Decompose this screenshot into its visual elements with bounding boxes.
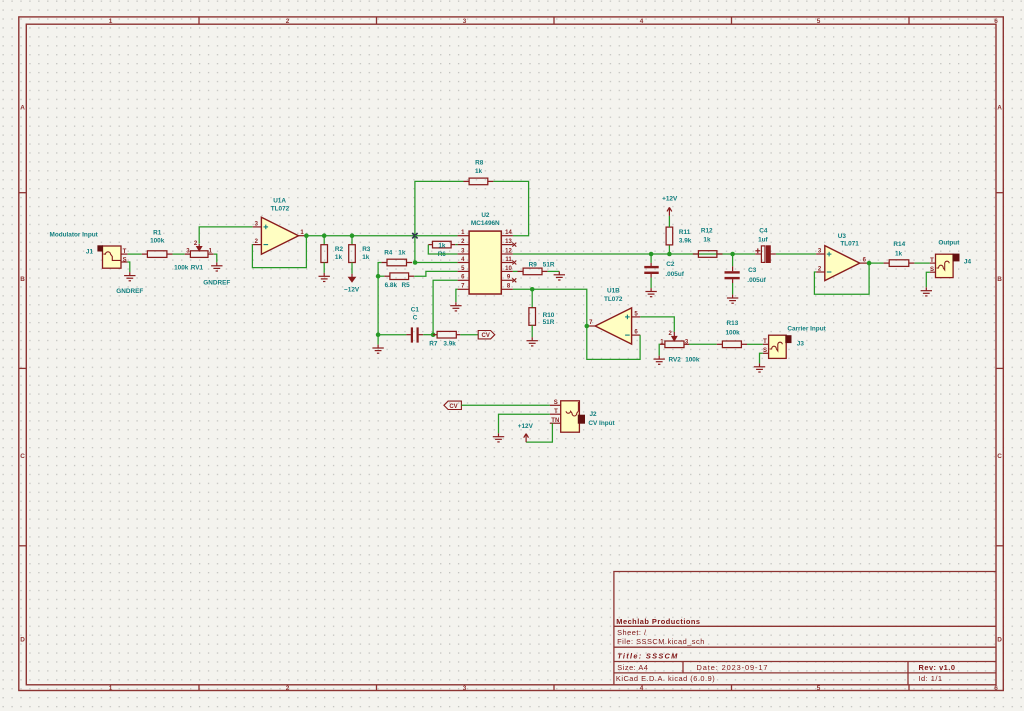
connector J3 body bbox=[769, 335, 787, 358]
svg-text:R13: R13 bbox=[727, 320, 739, 327]
U2 unconnected pin 13 marker bbox=[512, 243, 516, 247]
svg-text:U3: U3 bbox=[838, 233, 847, 240]
svg-text:T: T bbox=[930, 258, 934, 264]
power +12V at R11 bbox=[667, 207, 672, 216]
svg-text:6.8k: 6.8k bbox=[385, 282, 398, 289]
svg-text:1: 1 bbox=[109, 685, 113, 692]
wire U2 pin 10 to R9 bbox=[513, 270, 518, 272]
svg-text:R3: R3 bbox=[362, 246, 371, 253]
svg-text:C4: C4 bbox=[759, 228, 768, 235]
connector J2 pin TN stub bbox=[550, 422, 561, 424]
op-amp U3 plus mark bbox=[827, 252, 832, 257]
wire R5 right jog to pin 5 bbox=[414, 271, 457, 276]
power +12V at J2 bbox=[524, 434, 529, 443]
svg-text:U1A: U1A bbox=[273, 198, 286, 205]
svg-text:100k: 100k bbox=[725, 330, 740, 337]
op-amp U1A pin 2 stub bbox=[253, 244, 262, 246]
junction R2 tap bbox=[322, 233, 327, 238]
resistor R8 bbox=[464, 178, 494, 185]
connector J2 shield square bbox=[578, 415, 585, 424]
ground at U2 pin 7 bbox=[450, 302, 461, 311]
svg-text:S: S bbox=[123, 257, 127, 263]
ground GNDREF at RV1 bbox=[211, 262, 222, 271]
connector J4 body bbox=[936, 254, 954, 277]
junction U1B output bbox=[585, 324, 590, 329]
svg-text:S: S bbox=[763, 348, 767, 354]
svg-text:C3: C3 bbox=[748, 267, 757, 274]
connector J4 shield square bbox=[953, 254, 960, 262]
svg-text:11: 11 bbox=[505, 257, 512, 263]
wire U3 to R14 bbox=[869, 262, 884, 264]
wire U2 pin 8 down to R10 bbox=[531, 289, 533, 307]
wire R2 top bbox=[323, 236, 325, 245]
svg-text:.005uf: .005uf bbox=[665, 271, 684, 278]
op-amp U1B body bbox=[595, 308, 631, 344]
ground at R9 bbox=[554, 271, 565, 280]
U2 unconnected pin 11 marker bbox=[512, 261, 516, 265]
svg-text:51R: 51R bbox=[543, 261, 555, 268]
svg-text:R11: R11 bbox=[679, 229, 691, 236]
svg-text:100k: 100k bbox=[174, 265, 189, 272]
svg-text:2: 2 bbox=[286, 18, 290, 25]
global label CV at R7 bbox=[478, 331, 495, 339]
resistor R11 bbox=[666, 227, 673, 245]
wire J1 S to ground bbox=[128, 262, 130, 272]
svg-text:C2: C2 bbox=[666, 261, 675, 268]
wire J4 S to ground bbox=[926, 272, 930, 287]
svg-text:RV1: RV1 bbox=[191, 265, 204, 272]
op-amp U1A minus mark bbox=[264, 244, 269, 246]
svg-text:B: B bbox=[20, 276, 25, 283]
op-amp U1B pin 7 stub bbox=[587, 325, 595, 327]
wire R14 to J4 bbox=[914, 262, 930, 264]
op-amp U1B pin 6 stub bbox=[632, 334, 641, 336]
svg-text:File: SSSCM.kicad_sch: File: SSSCM.kicad_sch bbox=[617, 637, 705, 646]
junction U1A output bbox=[304, 233, 309, 238]
svg-text:1: 1 bbox=[109, 18, 113, 25]
svg-text:1k: 1k bbox=[475, 168, 483, 175]
ground at RV2 bbox=[654, 356, 665, 365]
wire R13 to J3 bbox=[747, 343, 763, 345]
connector J3 pin S stub bbox=[763, 352, 769, 354]
svg-text:Size: A4: Size: A4 bbox=[617, 663, 648, 672]
svg-text:MC1496N: MC1496N bbox=[471, 220, 500, 227]
svg-text:R10: R10 bbox=[543, 312, 555, 319]
wire R5 to U2 pin 5 bbox=[378, 275, 384, 277]
wire U1B pin5 to RV2 wiper bbox=[640, 317, 674, 332]
svg-text:A: A bbox=[20, 104, 25, 111]
svg-text:GNDREF: GNDREF bbox=[116, 288, 143, 295]
connector J2 jack contacts bbox=[566, 402, 578, 416]
wire R1 to RV1 bbox=[173, 253, 185, 255]
ground at C2 bbox=[645, 288, 656, 297]
svg-text:R4: R4 bbox=[384, 250, 393, 257]
svg-text:TL072: TL072 bbox=[271, 206, 290, 213]
wire U3 feedback bbox=[814, 263, 869, 294]
junction R4 right bbox=[413, 260, 418, 265]
junction R3 tap bbox=[350, 233, 355, 238]
potentiometer RV1 wiper arrow bbox=[197, 244, 202, 251]
resistor R5 bbox=[384, 273, 414, 280]
IC U2 body bbox=[469, 231, 501, 294]
wire R7 to CV label bbox=[460, 334, 478, 336]
op-amp U3 pin 6 stub bbox=[860, 262, 869, 264]
svg-text:Id: 1/1: Id: 1/1 bbox=[919, 674, 943, 683]
wire C1 left rail to ground bbox=[377, 335, 379, 345]
junction C3 bbox=[730, 252, 735, 257]
svg-text:1k: 1k bbox=[335, 254, 343, 261]
op-amp U1B pin 5 stub bbox=[632, 316, 641, 318]
op-amp U1A pin 1 stub bbox=[299, 235, 307, 237]
wire RV1 pin1 to ground bbox=[214, 254, 217, 262]
resistor R2 bbox=[321, 245, 328, 263]
junction R11 bbox=[667, 252, 672, 257]
svg-text:A: A bbox=[997, 104, 1002, 111]
svg-text:.005uf: .005uf bbox=[747, 277, 766, 284]
wire U2 pin 6 down to C1 bbox=[433, 280, 458, 334]
wire C3 stem bbox=[732, 254, 734, 266]
svg-text:B: B bbox=[997, 276, 1002, 283]
resistor R9 bbox=[518, 268, 548, 275]
svg-text:4: 4 bbox=[640, 685, 644, 692]
capacitor C3 bbox=[725, 266, 740, 283]
svg-text:1k: 1k bbox=[895, 251, 903, 258]
junction U2 pin 8 bbox=[530, 287, 535, 292]
svg-text:T: T bbox=[763, 339, 767, 345]
junction U3 output bbox=[867, 261, 872, 266]
op-amp U3 pin 2 stub bbox=[816, 271, 825, 273]
wire C4 to U3 bbox=[776, 253, 816, 255]
svg-text:J2: J2 bbox=[590, 411, 598, 418]
svg-text:1k: 1k bbox=[362, 254, 370, 261]
resistor R13 bbox=[717, 341, 747, 348]
wire vertical through X crossing bbox=[415, 181, 464, 262]
ground at J4 bbox=[921, 287, 932, 296]
ground at C3 bbox=[727, 295, 738, 304]
resistor R14 bbox=[884, 260, 915, 267]
svg-text:13: 13 bbox=[505, 239, 512, 245]
wire J2 T to ground bbox=[499, 414, 550, 433]
wire C2 to ground bbox=[650, 278, 652, 289]
potentiometer RV2 wiper arrow bbox=[672, 332, 677, 341]
svg-text:J1: J1 bbox=[86, 249, 94, 256]
svg-text:KiCad E.D.A. kicad (6.0.9): KiCad E.D.A. kicad (6.0.9) bbox=[616, 674, 715, 683]
svg-text:R2: R2 bbox=[335, 246, 344, 253]
connector J1 pin T bbox=[121, 253, 128, 255]
connector J1 pin S bbox=[121, 261, 128, 263]
svg-text:1uf: 1uf bbox=[758, 237, 768, 244]
U2 left pin stubs bbox=[458, 236, 470, 290]
wire R3 top bbox=[351, 236, 353, 245]
svg-text:R5: R5 bbox=[402, 282, 411, 289]
svg-text:3.9k: 3.9k bbox=[679, 238, 692, 245]
svg-text:R14: R14 bbox=[893, 241, 905, 248]
svg-text:Output: Output bbox=[938, 239, 960, 246]
ground at R10 bbox=[527, 337, 538, 346]
X crossing marker bbox=[412, 233, 417, 238]
frame column ticks bottom bbox=[199, 685, 909, 691]
wire J2 TN to +12V bbox=[526, 423, 552, 442]
svg-text:−12V: −12V bbox=[344, 287, 360, 294]
wire U1B feedback bbox=[587, 326, 640, 359]
wire R8 to U2 pin 14 bbox=[493, 181, 528, 235]
op-amp U1B minus mark bbox=[625, 334, 630, 336]
svg-text:100k: 100k bbox=[685, 357, 700, 364]
connector J2 body bbox=[561, 401, 580, 432]
svg-text:Modulator Input: Modulator Input bbox=[50, 231, 99, 238]
svg-text:4: 4 bbox=[640, 18, 644, 25]
wire C1 to R7 junction bbox=[423, 334, 433, 336]
U2 unconnected pin 9 marker bbox=[512, 278, 516, 282]
svg-text:D: D bbox=[997, 636, 1002, 643]
svg-text:+12V: +12V bbox=[662, 195, 678, 202]
connector J1 jack contacts bbox=[104, 252, 121, 261]
wire U2 pin 8 to U1B bbox=[513, 289, 587, 326]
svg-text:R1: R1 bbox=[153, 230, 162, 237]
svg-text:Sheet: /: Sheet: / bbox=[617, 628, 647, 637]
svg-text:51R: 51R bbox=[543, 319, 555, 326]
svg-text:RV2: RV2 bbox=[669, 357, 682, 364]
svg-text:Date: 2023-09-17: Date: 2023-09-17 bbox=[697, 663, 769, 672]
frame row ticks left bbox=[19, 193, 27, 546]
resistor R12 bbox=[693, 251, 723, 258]
resistor R1 bbox=[142, 251, 173, 258]
wire U2 pin 7 to ground bbox=[456, 289, 458, 302]
resistor R3 bbox=[349, 245, 356, 263]
U2 right pin stubs bbox=[501, 236, 513, 290]
svg-text:CV Input: CV Input bbox=[588, 420, 615, 427]
svg-text:S: S bbox=[930, 267, 934, 273]
svg-text:TL071: TL071 bbox=[840, 241, 859, 248]
wire rail to C1 bbox=[378, 334, 406, 336]
svg-text:3: 3 bbox=[463, 18, 467, 25]
junction C1 left bbox=[376, 332, 381, 337]
svg-text:U1B: U1B bbox=[607, 288, 620, 295]
svg-text:+12V: +12V bbox=[518, 423, 534, 430]
junction C2 bbox=[649, 252, 654, 257]
svg-text:U2: U2 bbox=[481, 212, 490, 219]
wire R4 left down to R5 bbox=[378, 263, 381, 277]
wire left rail down to C1 bbox=[377, 276, 379, 335]
op-amp U1A plus mark bbox=[264, 225, 269, 230]
svg-text:Title: SSSCM: Title: SSSCM bbox=[617, 652, 678, 661]
connector J2 pin T stub bbox=[550, 413, 561, 415]
wire RV1 wiper to U1A pin3 bbox=[199, 227, 253, 244]
power -12V arrow bbox=[349, 274, 355, 282]
svg-text:C1: C1 bbox=[411, 307, 420, 314]
wire X to U2 pin 1 bbox=[415, 235, 458, 237]
svg-text:Rev: v1.0: Rev: v1.0 bbox=[919, 663, 956, 672]
ground at C1 rail bbox=[372, 345, 383, 354]
wire junction to U2 pin 4 bbox=[415, 262, 458, 264]
connector J3 pin T stub bbox=[763, 343, 769, 345]
svg-text:3: 3 bbox=[463, 685, 467, 692]
wire U1A output bus bbox=[306, 235, 415, 237]
wire R3 to -12V bbox=[351, 263, 353, 274]
svg-text:5: 5 bbox=[817, 685, 821, 692]
svg-text:T: T bbox=[554, 409, 558, 415]
potentiometer RV1 bbox=[185, 251, 214, 258]
svg-text:J3: J3 bbox=[797, 340, 805, 347]
svg-text:R8: R8 bbox=[475, 159, 484, 166]
ground GNDREF at J1 bbox=[124, 272, 135, 281]
op-amp U3 pin 3 stub bbox=[816, 253, 825, 255]
ground at J3 bbox=[754, 363, 765, 372]
svg-text:1k: 1k bbox=[398, 250, 406, 257]
wire C3 to ground bbox=[732, 283, 734, 295]
svg-text:GNDREF: GNDREF bbox=[203, 279, 230, 286]
connector J2 pin S stub bbox=[550, 404, 561, 406]
connector J4 jack contacts bbox=[937, 261, 950, 270]
svg-text:T: T bbox=[123, 249, 127, 255]
svg-text:2: 2 bbox=[286, 685, 290, 692]
frame column ticks top bbox=[199, 17, 909, 24]
svg-text:J4: J4 bbox=[964, 259, 972, 266]
op-amp U1A pin 3 stub bbox=[253, 226, 262, 228]
connector J1 body bbox=[103, 246, 122, 268]
capacitor C2 bbox=[644, 263, 658, 278]
resistor R6 bbox=[428, 241, 455, 248]
op-amp U3 minus mark bbox=[827, 271, 832, 273]
wire RV2 pin3 to R13 bbox=[689, 343, 717, 345]
title block outline bbox=[614, 572, 996, 685]
junction C1 right bbox=[431, 332, 436, 337]
svg-text:R7: R7 bbox=[429, 341, 438, 348]
wire U2 pin 12 bus bbox=[513, 253, 755, 255]
svg-text:Mechlab Productions: Mechlab Productions bbox=[616, 617, 700, 626]
capacitor C4 polarized bbox=[755, 246, 776, 263]
svg-text:1k: 1k bbox=[703, 237, 711, 244]
capacitor C1 bbox=[406, 327, 423, 342]
ground at J2 T bbox=[493, 433, 504, 442]
op-amp U3 body bbox=[825, 246, 860, 281]
svg-text:D: D bbox=[20, 636, 25, 643]
svg-text:C: C bbox=[413, 314, 418, 321]
wire R11 bottom bbox=[668, 245, 670, 254]
svg-text:14: 14 bbox=[505, 230, 512, 236]
svg-text:3.9k: 3.9k bbox=[443, 341, 456, 348]
svg-text:CV: CV bbox=[482, 333, 490, 339]
connector J3 jack contacts bbox=[770, 342, 783, 351]
wire C2 stem bbox=[650, 254, 652, 263]
wire U1A feedback bbox=[252, 236, 306, 268]
wire CV label to J2 S bbox=[461, 404, 549, 406]
wire RV2 pin1 to ground bbox=[658, 344, 661, 355]
frame row ticks right bbox=[996, 193, 1003, 546]
svg-text:Carrier Input: Carrier Input bbox=[787, 325, 826, 332]
svg-text:10: 10 bbox=[505, 266, 512, 272]
op-amp U1B plus mark bbox=[625, 315, 630, 320]
resistor R7 bbox=[433, 331, 460, 338]
potentiometer RV2 bbox=[660, 341, 689, 348]
op-amp U1A body bbox=[261, 217, 298, 254]
connector J4 pin T stub bbox=[930, 262, 936, 264]
wire R9 to ground bbox=[548, 270, 560, 272]
svg-text:R6: R6 bbox=[438, 251, 447, 258]
wire R11 to +12V bbox=[668, 216, 670, 227]
svg-text:12: 12 bbox=[505, 248, 512, 254]
wire J1 T to R1 bbox=[128, 253, 142, 255]
svg-text:C: C bbox=[997, 453, 1002, 460]
connector J3 shield square bbox=[785, 335, 791, 343]
resistor R4 bbox=[381, 259, 412, 266]
svg-text:TN: TN bbox=[551, 418, 559, 424]
connector J1 shield square bbox=[97, 245, 103, 251]
wire R6 right to pin 2 bbox=[455, 244, 457, 246]
svg-text:CV: CV bbox=[449, 404, 457, 410]
svg-text:5: 5 bbox=[817, 18, 821, 25]
junction R5 left bbox=[376, 274, 381, 279]
connector J4 pin S stub bbox=[930, 271, 936, 273]
svg-text:S: S bbox=[554, 400, 558, 406]
wire R10 to ground bbox=[531, 325, 533, 337]
wire R6 left to pin 3 bbox=[428, 245, 457, 254]
svg-text:R9: R9 bbox=[529, 261, 538, 268]
ground at R2 bbox=[319, 273, 330, 282]
svg-text:TL072: TL072 bbox=[604, 296, 623, 303]
svg-text:6: 6 bbox=[994, 685, 998, 692]
svg-text:R12: R12 bbox=[701, 228, 713, 235]
global label CV at J2 bbox=[444, 401, 462, 409]
svg-text:6: 6 bbox=[994, 18, 998, 25]
wire R2 to ground bbox=[323, 263, 325, 273]
svg-text:100k: 100k bbox=[150, 237, 165, 244]
svg-text:1k: 1k bbox=[438, 243, 446, 250]
resistor R10 bbox=[529, 308, 536, 326]
wire J3 S to ground bbox=[760, 353, 763, 363]
svg-text:C: C bbox=[20, 453, 25, 460]
